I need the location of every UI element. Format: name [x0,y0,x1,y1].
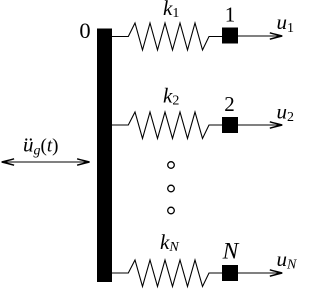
svg-text:1: 1 [225,3,236,27]
svg-text:k2: k2 [163,84,179,109]
svg-text:u1: u1 [277,10,295,36]
svg-text:u2: u2 [277,100,295,126]
svg-text:0: 0 [79,18,90,43]
svg-text:ug(t): ug(t) [23,133,58,159]
svg-text:uN: uN [277,247,298,273]
svg-text:k1: k1 [163,0,179,21]
svg-text:N: N [222,239,240,265]
svg-text:2: 2 [224,92,235,116]
svg-text:kN: kN [160,230,179,255]
